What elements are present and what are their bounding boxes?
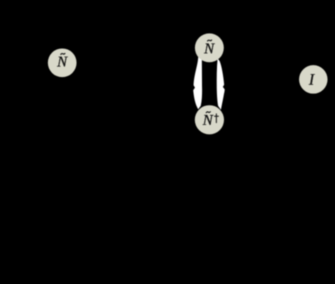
label N-tilde top middle — [203, 40, 215, 57]
label I right — [308, 72, 315, 89]
wire: right curved arrow N-dagger -> N — [217, 59, 225, 110]
node N-tilde (top middle) — [195, 33, 224, 62]
node N-tilde (left) — [48, 48, 77, 77]
svg-text:N: N — [56, 54, 68, 70]
svg-text:I: I — [308, 72, 315, 89]
label N-tilde left — [56, 53, 68, 70]
node N-tilde-dagger (bottom middle) — [195, 105, 224, 134]
wire: left curved arrow N -> N-dagger — [193, 56, 202, 110]
svg-text:N: N — [202, 113, 214, 129]
node I (right) — [299, 65, 328, 94]
svg-text:N: N — [203, 41, 215, 57]
label N-tilde-dagger bottom middle — [202, 112, 219, 129]
